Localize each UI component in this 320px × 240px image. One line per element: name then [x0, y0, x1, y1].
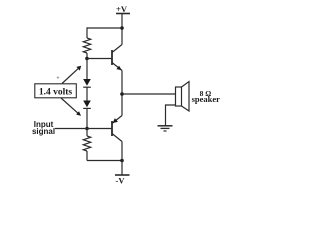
wire input signal [55, 128, 87, 130]
svg-text:+: + [56, 75, 60, 82]
wire Q2 collector down [121, 142, 123, 161]
wire to resistor R1 [86, 27, 88, 38]
wire node A to D1 [86, 59, 88, 80]
svg-text:signal: signal [32, 127, 55, 136]
node: -V rail junction [120, 159, 124, 163]
transistor Q1 (NPN) [112, 45, 122, 71]
resistor R1 [83, 38, 90, 53]
wire top branch [87, 27, 122, 29]
wire Q1 base [87, 58, 112, 60]
diode D1 [83, 79, 91, 87]
wire bottom branch [87, 160, 122, 162]
label: 8 ohm speaker [192, 89, 221, 104]
transistor Q2 (PNP) [112, 116, 122, 142]
+V supply [116, 4, 130, 14]
wire Q2 base [87, 128, 112, 130]
wire speaker bottom terminal [166, 105, 176, 126]
wire +V rail to Q1 collector [121, 14, 123, 45]
wire node to -V bar [121, 161, 123, 176]
wire node B to R2 [86, 129, 88, 137]
-V supply [115, 175, 130, 186]
wire R2 down [86, 151, 88, 161]
node B (Q2 base / input node) [85, 127, 89, 131]
resistor R2 [83, 136, 90, 151]
ground [158, 126, 173, 131]
svg-text:+V: +V [116, 4, 128, 14]
diode D2 [83, 101, 91, 109]
node: output [120, 92, 124, 96]
wire output to speaker [122, 93, 176, 95]
node A (Q1 base / diode chain top) [85, 57, 89, 61]
1.4 volts box [35, 84, 77, 98]
wire R1 to node A [86, 53, 88, 59]
annotation arrow (top, to diode chain top) [62, 66, 81, 84]
label: Input signal [32, 120, 55, 136]
annotation arrow (bottom, to diode chain bottom) [61, 98, 81, 116]
wire D1 to D2 [86, 87, 88, 100]
speaker [176, 82, 190, 112]
node: +V rail junction [120, 26, 124, 30]
svg-text:-V: -V [116, 176, 126, 186]
wire D2 to node B [86, 108, 88, 128]
svg-text:1.4 volts: 1.4 volts [39, 88, 73, 98]
wire Q1 emitter to output node to Q2 emitter [121, 71, 123, 116]
svg-text:speaker: speaker [192, 94, 221, 104]
